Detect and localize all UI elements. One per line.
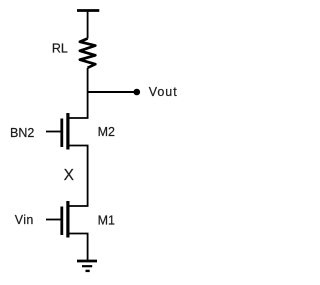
svg-text:RL: RL xyxy=(52,41,68,55)
svg-text:Vin: Vin xyxy=(15,213,34,227)
svg-text:X: X xyxy=(64,167,75,184)
svg-text:BN2: BN2 xyxy=(10,126,34,140)
svg-text:M2: M2 xyxy=(98,125,115,139)
svg-text:M1: M1 xyxy=(98,213,115,227)
svg-text:Vout: Vout xyxy=(149,85,178,99)
